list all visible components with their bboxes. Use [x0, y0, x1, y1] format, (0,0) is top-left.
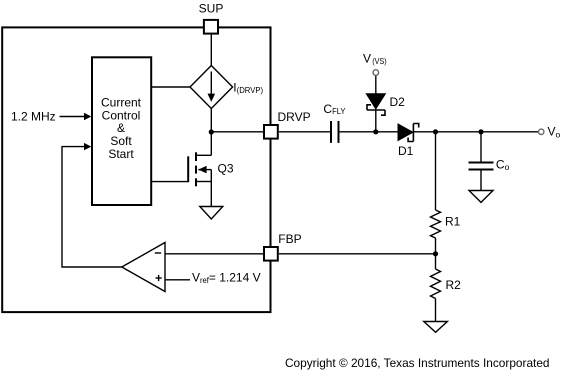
- wire: drain node down to Q3: [210, 132, 212, 155]
- wire: R2 to ground: [435, 299, 437, 322]
- resistor R1: [431, 210, 441, 238]
- op-amp comparator: [122, 243, 165, 292]
- ground (R2): [424, 322, 448, 333]
- svg-text:FBP: FBP: [278, 232, 301, 246]
- svg-text:Start: Start: [108, 147, 134, 161]
- block: Current Control & Soft Start: [92, 57, 151, 205]
- wire: CFLY to diode node: [339, 131, 376, 133]
- wire: feedback node to FBP pad: [279, 253, 436, 255]
- wire: R1 node to Co node: [436, 131, 482, 133]
- terminal Vo: [539, 129, 544, 134]
- ground (Q3 source): [200, 207, 223, 220]
- wire: node down to R1: [435, 132, 437, 210]
- wire: block to current source: [151, 86, 190, 88]
- wire: R1 to feedback node: [435, 238, 437, 254]
- junction: CFLY D1 D2 node: [373, 129, 378, 134]
- wire: node up to D2: [375, 110, 377, 132]
- junction: Co node: [478, 129, 483, 134]
- pin DRVP pad: [264, 125, 278, 139]
- pin FBP pad: [264, 247, 278, 261]
- svg-text:I(DRVP): I(DRVP): [233, 81, 263, 95]
- svg-text:Co: Co: [496, 157, 510, 172]
- wire: Co to ground: [480, 170, 482, 191]
- wire: SUP pad to current source: [210, 35, 212, 67]
- wire: drain node to DRVP pad: [211, 131, 263, 133]
- svg-text:CFLY: CFLY: [323, 102, 345, 116]
- svg-text:Vref= 1.214 V: Vref= 1.214 V: [192, 271, 261, 285]
- svg-text:&: &: [117, 121, 125, 135]
- svg-text:Current: Current: [101, 96, 142, 110]
- svg-text:Q3: Q3: [218, 162, 234, 176]
- current source I(DRVP): [190, 66, 233, 109]
- diode D1 (Schottky): [398, 124, 419, 142]
- svg-text:Vo: Vo: [548, 125, 561, 140]
- svg-text:R2: R2: [446, 278, 462, 292]
- pin SUP pad: [204, 20, 218, 34]
- junction: feedback node: [433, 251, 438, 256]
- svg-text:D2: D2: [390, 95, 406, 109]
- svg-text:Soft: Soft: [110, 134, 132, 148]
- wire: D1 to R1 node: [413, 131, 435, 133]
- wire: feedback node to R2: [435, 254, 437, 269]
- wire: Co node to Vo terminal: [481, 131, 538, 133]
- ground (Co): [469, 191, 493, 203]
- junction: R1 top node: [433, 129, 438, 134]
- wire: current source to drain node: [210, 109, 212, 133]
- svg-text:DRVP: DRVP: [278, 110, 311, 124]
- wire: Co node down to Co: [480, 132, 482, 162]
- wire: feedback from comparator to block: [62, 143, 122, 267]
- svg-text:R1: R1: [445, 215, 461, 229]
- resistor R2: [431, 269, 441, 299]
- IC boundary box U1: [2, 27, 270, 312]
- wire: node to D1: [376, 131, 398, 133]
- terminal V(VS): [373, 70, 379, 76]
- transistor Q3: [188, 152, 211, 206]
- svg-text:V(VS): V(VS): [363, 52, 387, 66]
- wire: DRVP pad to CFLY: [279, 131, 331, 133]
- junction: drain node: [209, 129, 214, 134]
- diode D2 (Schottky): [366, 94, 385, 116]
- wire: comparator plus input to Vref: [165, 279, 190, 281]
- wire: Q3 gate to block: [151, 181, 188, 183]
- svg-text:Copyright © 2016, Texas Instru: Copyright © 2016, Texas Instruments Inco…: [285, 356, 550, 370]
- capacitor Co: [469, 163, 494, 170]
- svg-text:D1: D1: [398, 144, 414, 158]
- wire: 1.2 MHz input arrow: [60, 113, 92, 120]
- wire: D2 to VS terminal: [375, 75, 377, 93]
- capacitor CFLY: [331, 121, 339, 143]
- svg-text:1.2 MHz: 1.2 MHz: [11, 110, 56, 124]
- svg-text:SUP: SUP: [199, 2, 224, 16]
- wire: comparator minus input to FBP pad: [165, 253, 263, 255]
